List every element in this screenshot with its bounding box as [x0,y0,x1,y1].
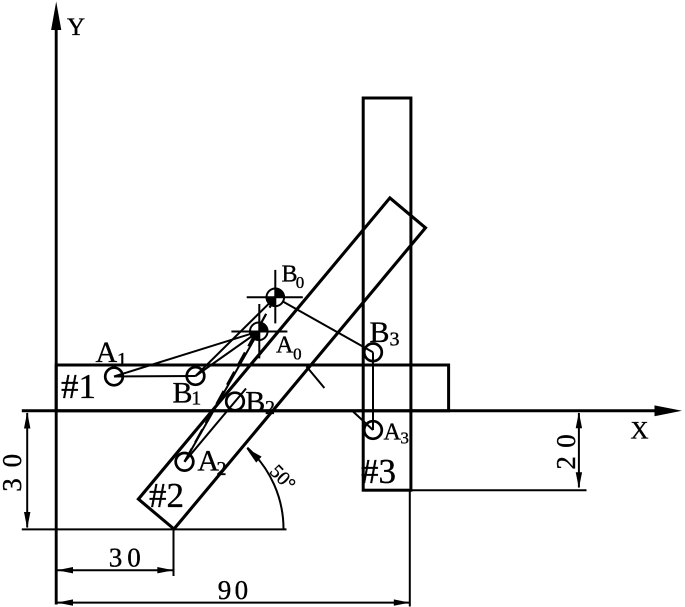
svg-text:3: 3 [390,329,400,351]
dimension 90 horizontal [57,599,410,605]
bar #2 (inclined link at 50 deg) [138,198,425,529]
link line B1-B0 [196,297,276,376]
joint circle A3 [364,421,382,439]
A0 crosshair [231,304,287,358]
extension line at y=529 [22,528,287,530]
X axis [22,409,657,412]
Y axis [55,26,58,605]
link line A1-A0 [114,331,259,376]
joint circle A1 [105,368,123,386]
svg-text:3: 3 [400,429,409,448]
svg-text:0: 0 [296,273,305,292]
dimension 30 horizontal (bottom) [57,567,173,573]
link line B1-A0 [196,331,259,376]
svg-text:X: X [631,418,649,445]
link line A1-B1 [114,375,196,378]
Y axis arrowhead [51,2,61,31]
fixed point A0 (circle with filled quadrants) [249,322,268,341]
svg-text:B: B [370,316,390,349]
link line B0-B3 [275,297,373,352]
svg-text:B: B [245,386,265,419]
joint circle B3 [364,344,382,362]
X axis arrowhead [655,405,683,416]
line segment toward A3 (upper part) [307,367,325,389]
bar #1 (horizontal link along X axis) [56,365,448,411]
line segment into A3 (lower part) [353,412,373,431]
extension line at y=490 [412,489,587,491]
svg-text:1: 1 [117,349,127,371]
fixed point B0 (circle with filled quadrants) [266,288,285,307]
svg-text:#2: #2 [149,476,184,515]
svg-text:A: A [96,336,118,369]
svg-text:2: 2 [265,397,275,419]
B0 crosshair [247,270,303,324]
extension line below bar3 [409,491,411,607]
extension line below bar2 corner [173,530,175,576]
joint circle B1 [187,367,205,385]
joint circle A2 [176,453,194,471]
svg-text:1: 1 [191,388,201,410]
link line A2-B2 [185,389,247,462]
link line A2-A0 [185,331,259,462]
joint circle B2 [226,393,244,411]
arc arrowhead [246,448,261,462]
dimension 30 vertical (left) [24,412,30,529]
svg-text:B: B [173,377,193,410]
svg-text:#3: #3 [361,452,396,491]
svg-text:A: A [384,420,402,446]
bar #3 (vertical link) [363,98,411,490]
svg-text:Y: Y [67,14,85,41]
50 degree angle arc [247,448,283,529]
svg-text:#1: #1 [61,367,96,406]
dashed line A2-B0 [185,297,276,462]
svg-text:A: A [276,332,294,358]
dimension 20 vertical (right) [576,412,582,488]
link line B3-A3 [372,352,374,430]
svg-text:0: 0 [293,345,302,364]
svg-text:2: 2 [217,458,227,480]
